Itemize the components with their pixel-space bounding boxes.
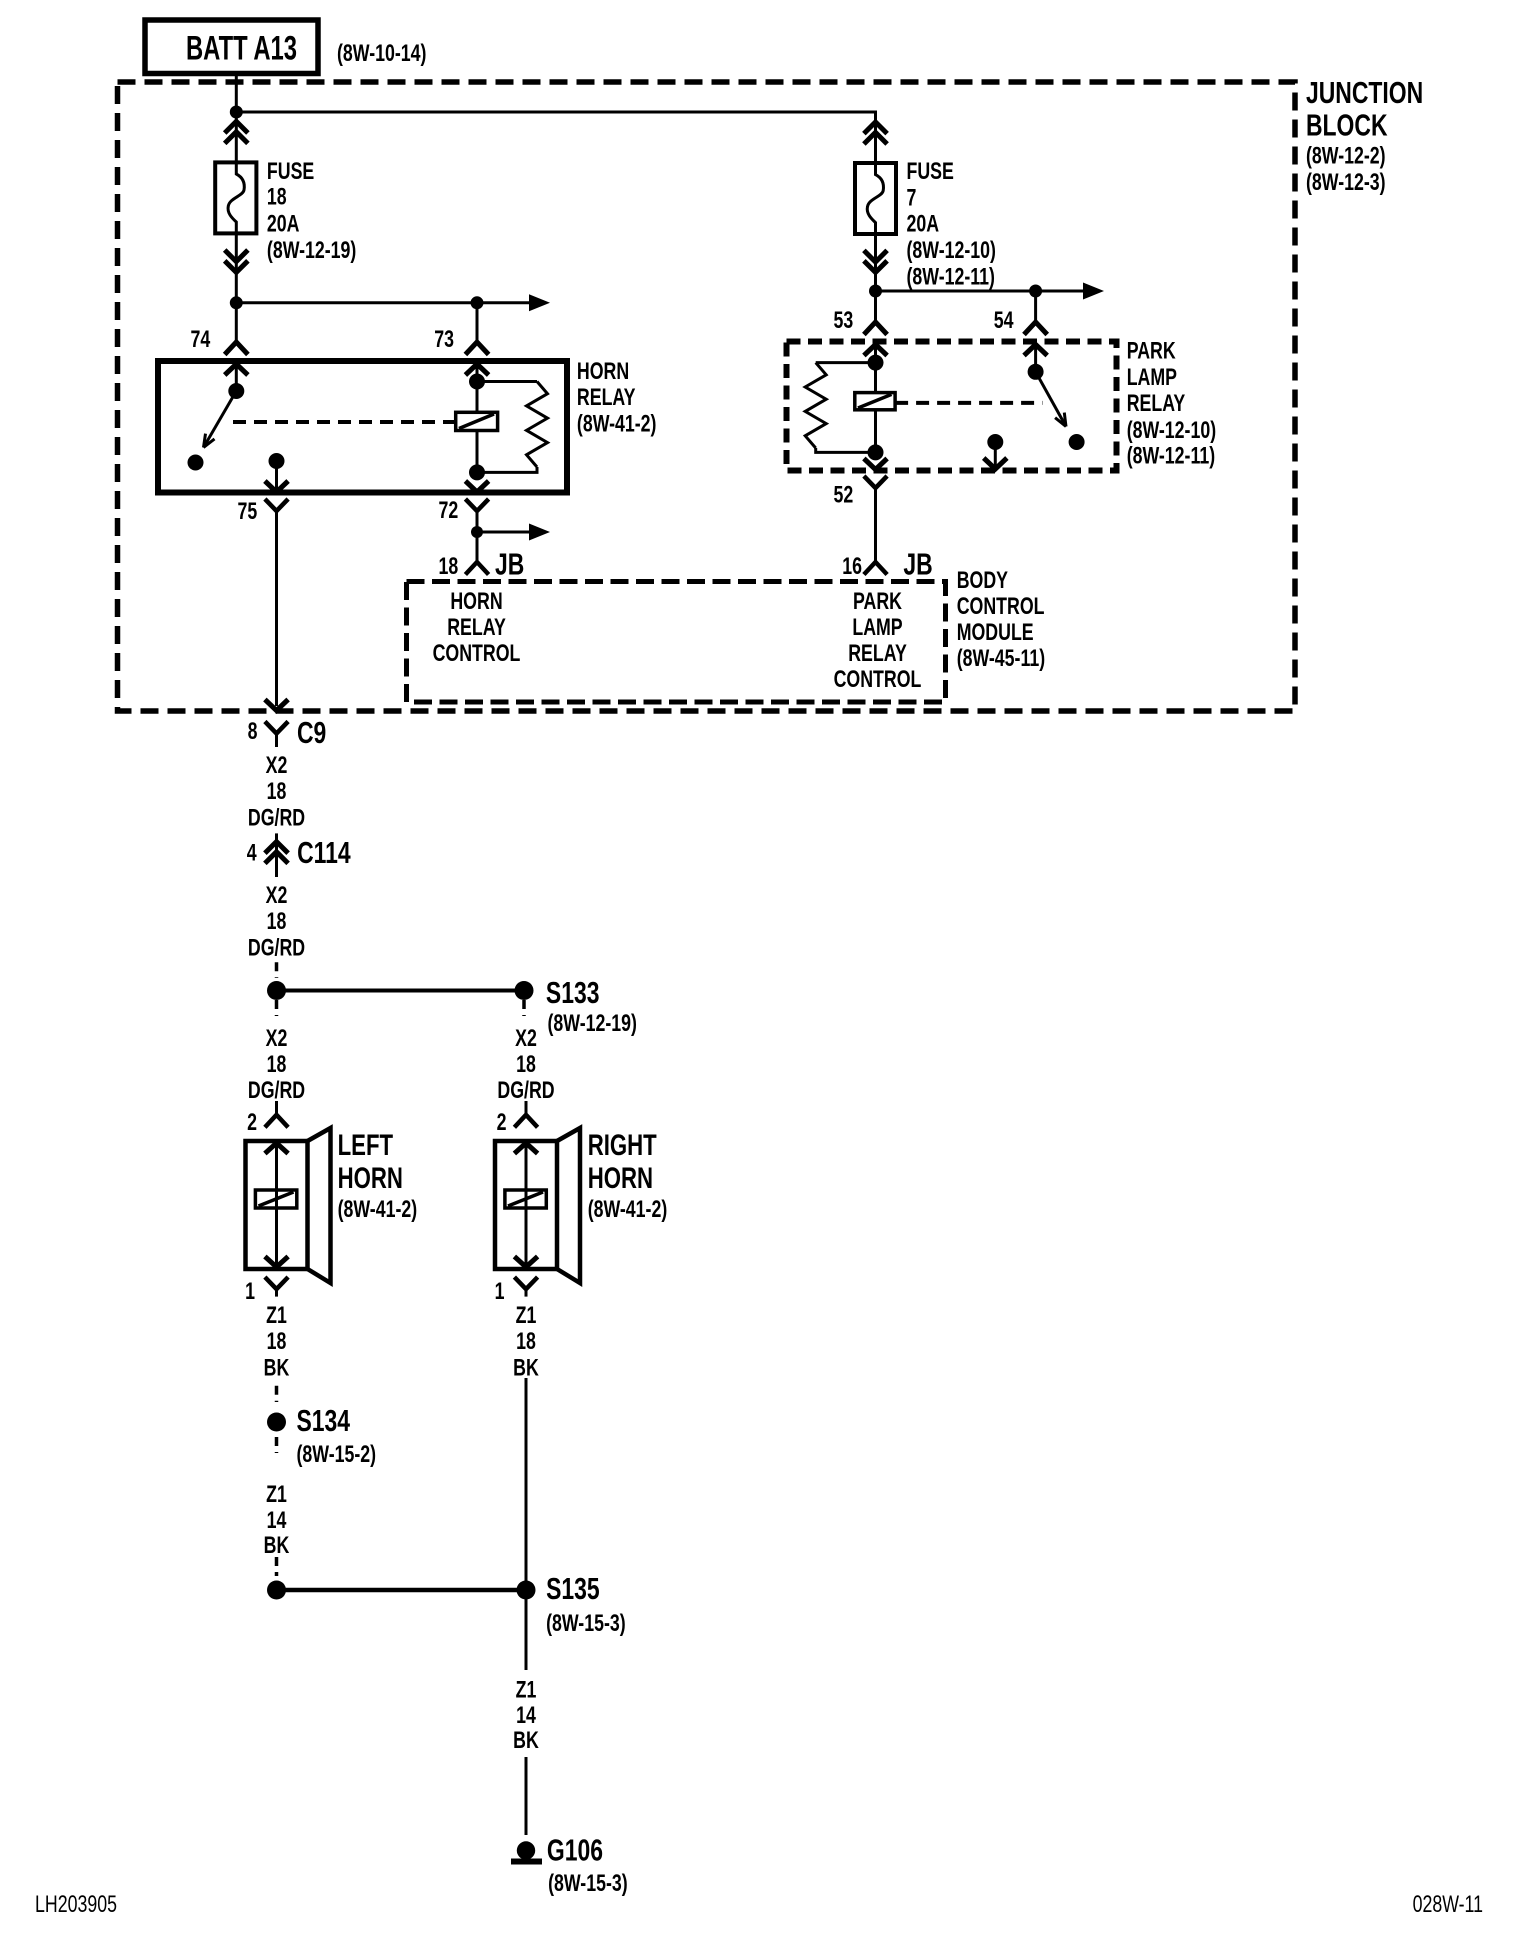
svg-text:HORN: HORN [338,1161,403,1195]
connector C114 [275,833,278,877]
svg-text:(8W-12-11): (8W-12-11) [907,264,995,290]
arrow feed continues right [529,294,550,311]
connector chevrons below fuse 18 [235,233,238,302]
svg-text:028W-11: 028W-11 [1413,1892,1483,1918]
node above pin 54 [1029,285,1042,298]
svg-text:C9: C9 [297,715,326,750]
svg-text:20A: 20A [267,211,300,237]
svg-text:JB: JB [495,546,524,581]
svg-text:(8W-41-2): (8W-41-2) [338,1197,418,1223]
svg-text:Z1: Z1 [516,1302,537,1328]
pin 53 inner chevron [864,345,887,356]
left horn coil [255,1190,296,1208]
svg-text:(8W-12-11): (8W-12-11) [1127,443,1215,469]
svg-text:(8W-12-10): (8W-12-10) [907,238,996,264]
splice S134 [267,1413,286,1432]
svg-text:RELAY: RELAY [1127,391,1186,417]
svg-text:(8W-15-2): (8W-15-2) [297,1442,377,1468]
park lamp relay dashed box [787,342,1117,471]
svg-text:BLOCK: BLOCK [1306,107,1388,142]
svg-text:FUSE: FUSE [267,159,314,185]
svg-text:(8W-12-10): (8W-12-10) [1127,417,1216,443]
svg-text:X2: X2 [266,1026,288,1052]
horn relay coil K1 [476,382,479,413]
wire feed to pin 54 [876,290,1084,293]
svg-text:DG/RD: DG/RD [248,935,305,961]
wire right horn to S135 [525,1378,528,1590]
svg-text:75: 75 [237,499,257,525]
svg-text:18: 18 [267,1329,287,1355]
svg-text:16: 16 [842,554,862,580]
C9 arrow at junction block edge [265,700,288,711]
wire node to pin 53 [874,291,877,322]
svg-text:(8W-12-19): (8W-12-19) [548,1011,637,1037]
junction block dashed border [118,82,1296,711]
connector chevrons above fuse 7 [864,122,887,134]
park relay coil dashed link [895,401,1042,405]
svg-text:DG/RD: DG/RD [248,1078,305,1104]
svg-text:BATT A13: BATT A13 [186,30,297,68]
svg-text:14: 14 [516,1703,536,1729]
svg-text:LAMP: LAMP [852,615,902,641]
svg-text:PARK: PARK [1127,338,1177,364]
node pin 72 branch [471,526,483,538]
wire pin 52 to JB pin 16 [874,488,877,562]
horn relay coil top node [469,374,485,390]
svg-text:(8W-41-2): (8W-41-2) [588,1197,668,1223]
svg-text:18: 18 [516,1052,536,1078]
svg-text:DG/RD: DG/RD [248,805,305,831]
dashed wire into S134 [275,1386,279,1402]
svg-text:Z1: Z1 [266,1302,287,1328]
pin 73 inner chevron [465,364,488,375]
svg-text:G106: G106 [547,1832,603,1867]
wire S135 down [525,1590,528,1670]
wire to ground [525,1757,528,1835]
svg-text:RELAY: RELAY [577,385,636,411]
svg-text:Z1: Z1 [516,1677,537,1703]
svg-text:LEFT: LEFT [338,1128,393,1162]
park relay coil bottom node [868,444,884,460]
park relay switch arm [1036,372,1066,427]
connector chevrons below fuse 7 [874,234,877,291]
svg-text:RELAY: RELAY [447,615,506,641]
wire top bus to right branch [236,112,875,163]
horn relay box [158,361,567,493]
svg-text:BK: BK [264,1355,290,1381]
svg-text:JB: JB [903,546,932,581]
arrow branch continues right [529,524,550,541]
wire pin 75 to C9 [275,511,278,706]
svg-text:S133: S133 [546,975,600,1010]
ground G106 [517,1841,535,1859]
svg-text:(8W-41-2): (8W-41-2) [577,411,657,437]
fuse F18 [215,162,256,233]
svg-text:X2: X2 [515,1026,537,1052]
svg-text:2: 2 [497,1110,507,1136]
park relay NO contact [1069,434,1085,450]
horn relay resistor [477,380,537,383]
connector chevrons above fuse 18 [235,112,238,162]
right horn box [495,1141,557,1269]
svg-text:7: 7 [907,185,917,211]
svg-text:S135: S135 [546,1571,600,1606]
horn relay NC contact [188,455,204,471]
svg-text:53: 53 [833,308,853,334]
svg-text:HORN: HORN [588,1161,653,1195]
horn relay NO contact pin 75 [269,453,285,469]
node above pin 73 [471,296,484,309]
svg-text:FUSE: FUSE [907,159,954,185]
svg-text:18: 18 [516,1329,536,1355]
svg-text:PARK: PARK [853,589,903,615]
svg-text:CONTROL: CONTROL [834,667,922,693]
svg-text:X2: X2 [266,753,288,779]
arrow park feed continues right [1083,283,1104,300]
svg-text:18: 18 [267,184,287,210]
svg-text:CONTROL: CONTROL [957,594,1045,620]
svg-text:(8W-15-3): (8W-15-3) [548,1871,628,1897]
svg-text:BK: BK [264,1533,290,1559]
park relay coil top node [868,355,884,371]
horn relay switch arm [204,391,237,448]
right horn internal wire [525,1143,528,1267]
svg-text:73: 73 [434,327,454,353]
svg-text:1: 1 [495,1279,505,1305]
dashed wire below S133 left [275,1000,279,1016]
wire pin 72 to JB pin 18 [476,511,479,562]
wire BATT to junction node [235,74,238,113]
svg-text:18: 18 [267,909,287,935]
svg-text:18: 18 [267,779,287,805]
node under BATT [230,106,243,119]
horn relay coil bottom chevron [465,481,488,492]
svg-text:LAMP: LAMP [1127,365,1177,391]
wire node to pin 54 [1034,291,1037,322]
fuse F7 [855,163,896,234]
battery feed box BATT A13 [145,20,318,74]
svg-text:RELAY: RELAY [848,641,907,667]
dashed wire into S135 left [275,1557,279,1576]
svg-text:MODULE: MODULE [957,620,1034,646]
svg-text:14: 14 [267,1508,287,1534]
svg-text:DG/RD: DG/RD [497,1078,554,1104]
svg-text:(8W-10-14): (8W-10-14) [337,41,426,67]
park relay resistor [816,361,876,364]
svg-text:52: 52 [833,482,853,508]
svg-text:HORN: HORN [450,589,502,615]
svg-text:C114: C114 [297,835,351,870]
pin 54 inner chevron [1024,345,1047,356]
svg-text:Z1: Z1 [266,1482,287,1508]
wire feed bus to pin 73 [236,301,529,304]
horn relay coil bottom node [469,464,485,480]
svg-text:(8W-45-11): (8W-45-11) [957,646,1045,672]
svg-text:8: 8 [248,719,258,745]
svg-text:18: 18 [267,1052,287,1078]
svg-text:CONTROL: CONTROL [433,641,521,667]
left horn box [246,1141,308,1269]
svg-text:LH203905: LH203905 [35,1892,117,1918]
wire node to pin 74 [235,303,238,342]
pin 74 inner chevron [225,364,248,375]
splice S133 [267,981,286,1000]
svg-text:(8W-12-19): (8W-12-19) [267,238,356,264]
node below fuse 7 [869,285,882,298]
park relay coil K2 [874,363,877,393]
svg-text:S134: S134 [297,1403,351,1438]
svg-text:JUNCTION: JUNCTION [1306,75,1423,110]
park relay common contact [1028,364,1044,380]
svg-text:(8W-12-2): (8W-12-2) [1306,143,1386,169]
node below fuse 18 [230,296,243,309]
svg-text:18: 18 [438,554,458,580]
body control module dashed box [407,582,946,703]
svg-text:74: 74 [190,327,210,353]
svg-text:BODY: BODY [957,568,1008,594]
svg-text:(8W-12-3): (8W-12-3) [1306,170,1386,196]
svg-text:BK: BK [513,1355,539,1381]
svg-text:BK: BK [513,1728,539,1754]
svg-text:(8W-15-3): (8W-15-3) [546,1611,626,1637]
wire node to pin 73 [476,303,479,342]
svg-text:X2: X2 [266,883,288,909]
park relay coil bottom chevron [864,459,887,470]
svg-text:54: 54 [994,308,1014,334]
right horn coil [505,1190,546,1208]
horn relay coil dashed link [233,420,456,424]
dashed wire below S134 [275,1437,279,1453]
svg-text:1: 1 [245,1279,255,1305]
park relay NC contact with down arrow [987,434,1003,450]
horn relay common contact [228,383,244,399]
svg-text:4: 4 [247,840,257,866]
left horn internal wire [275,1143,278,1267]
svg-text:72: 72 [438,498,458,524]
dashed wire below S133 right [522,1000,526,1016]
wire branch arrow [477,531,529,534]
svg-text:20A: 20A [907,211,940,237]
svg-text:HORN: HORN [577,359,629,385]
dashed wire into S133 [275,962,279,978]
svg-text:RIGHT: RIGHT [588,1128,657,1162]
splice S135 [267,1581,286,1600]
svg-text:2: 2 [247,1110,257,1136]
